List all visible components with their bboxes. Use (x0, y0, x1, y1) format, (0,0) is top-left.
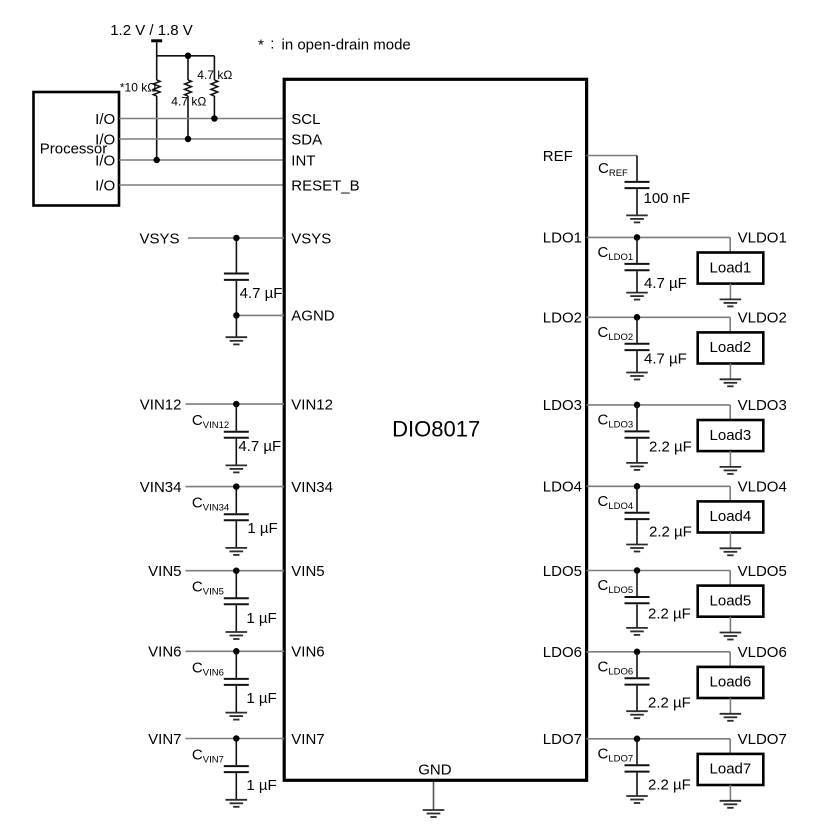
svg-text:4.7 µF: 4.7 µF (644, 275, 687, 292)
load label Load5 (710, 592, 752, 609)
wire I/O to SCL (119, 118, 284, 120)
wire CVIN12 top lead (235, 404, 237, 431)
ground CLDO6 (626, 711, 648, 718)
svg-text::: : (270, 36, 274, 53)
IC pin label VIN7 (291, 731, 324, 748)
ground Load6 (720, 714, 742, 721)
wire AGND ground lead (235, 315, 237, 336)
ground CVIN12 (226, 465, 248, 472)
svg-text:1 µF: 1 µF (246, 690, 276, 707)
svg-text:VIN12: VIN12 (291, 396, 333, 413)
capacitor CLDO4 label (598, 493, 634, 512)
ground CVIN6 (226, 713, 248, 720)
junction node R2 on SDA wire (185, 136, 192, 143)
note open-drain mode (258, 36, 411, 54)
wire CVIN12 bottom lead (235, 439, 237, 465)
svg-text:LDO7: LDO7 (543, 731, 582, 748)
IC pin label LDO6 (543, 644, 582, 661)
svg-text:2.2 µF: 2.2 µF (649, 439, 692, 456)
wire top branch to R2 R3 (157, 55, 215, 57)
processor I/O pin label (INT wire) (95, 152, 115, 169)
IC pin label LDO5 (543, 563, 582, 580)
ground CLDO3 (626, 463, 648, 470)
IC pin label LDO4 (543, 479, 582, 496)
svg-text:AGND: AGND (291, 308, 335, 325)
capacitor CVIN12 label (192, 412, 229, 431)
IC pin label VIN34 (291, 479, 333, 496)
resistor R3 4.7k leads (213, 56, 215, 119)
svg-text:VIN7: VIN7 (291, 731, 324, 748)
wire CVIN7 bottom lead (235, 773, 237, 799)
wire LDO2 to load elbow (587, 317, 731, 332)
wire CVIN5 top lead (235, 571, 237, 598)
IC pin label LDO1 (543, 230, 582, 247)
ground CLDO7 (626, 796, 648, 803)
load box Load7 (698, 754, 764, 785)
wire CLDO4 top lead (636, 486, 638, 512)
ground CVIN5 (226, 632, 248, 639)
wire CLDO3 bottom lead (636, 439, 638, 463)
wire AGND to IC (236, 314, 284, 316)
wire Load2 ground lead (729, 364, 731, 380)
net label VLDO3 (738, 397, 787, 414)
junction node R1 on INT wire (153, 157, 160, 164)
svg-text:LDO6: LDO6 (543, 644, 582, 661)
capacitor CVIN6 (224, 679, 249, 685)
wire Load5 ground lead (729, 617, 731, 633)
IC pin label RESET_B (291, 177, 359, 194)
capacitor CREF value 100 nF (644, 190, 691, 207)
svg-text:VLDO2: VLDO2 (738, 310, 787, 327)
capacitor CVIN6 value (246, 690, 276, 707)
load box Load5 (698, 586, 764, 617)
IC pin label SDA (291, 131, 322, 148)
resistor R2 label 4.7 kOhm (171, 95, 206, 109)
net label VLDO5 (738, 563, 787, 580)
capacitor CLDO6 value (648, 695, 691, 712)
load box Load6 (698, 667, 764, 698)
svg-text:2.2 µF: 2.2 µF (648, 605, 691, 622)
svg-text:LDO5: LDO5 (543, 563, 582, 580)
load label Load1 (710, 259, 752, 276)
wire CLDO3 top lead (636, 405, 638, 431)
svg-text:VIN34: VIN34 (140, 479, 182, 496)
IC U1 DIO8017 box (284, 79, 586, 780)
wire I/O to INT (119, 159, 284, 161)
svg-text:VLDO6: VLDO6 (738, 644, 787, 661)
wire CLDO7 bottom lead (636, 773, 638, 796)
wire CLDO7 top lead (636, 739, 638, 765)
wire LDO6 to load elbow (587, 652, 731, 667)
svg-text:1 µF: 1 µF (246, 777, 276, 794)
junction node VIN5 cap tap (233, 567, 240, 574)
wire LDO5 to load elbow (587, 571, 731, 586)
ground Load2 (720, 379, 742, 386)
capacitor CLDO3 label (598, 411, 634, 430)
svg-text:2.2 µF: 2.2 µF (648, 695, 691, 712)
IC pin label AGND (291, 308, 335, 325)
svg-text:RESET_B: RESET_B (291, 177, 359, 194)
IC pin label GND (418, 762, 452, 779)
junction node LDO4 cap tap (634, 483, 641, 490)
processor I/O pin label (RESET_B wire) (95, 177, 115, 194)
svg-text:INT: INT (291, 152, 315, 169)
capacitor CREF (625, 182, 650, 188)
net label VLDO4 (738, 479, 787, 496)
svg-text:4.7 µF: 4.7 µF (238, 438, 281, 455)
svg-text:VIN6: VIN6 (291, 644, 324, 661)
IC pin label INT (291, 152, 315, 169)
wire CLDO6 top lead (636, 652, 638, 678)
capacitor CVIN5 (224, 598, 249, 604)
svg-text:2.2 µF: 2.2 µF (649, 524, 692, 541)
ground Load5 (720, 633, 742, 640)
capacitor CVIN7 value (246, 777, 276, 794)
svg-text:Load5: Load5 (710, 592, 752, 609)
load box Load3 (698, 420, 764, 451)
capacitor CLDO2 label (598, 324, 634, 343)
wire VIN34 to IC (186, 486, 285, 488)
svg-text:VIN7: VIN7 (148, 731, 181, 748)
junction node VIN6 cap tap (233, 648, 240, 655)
resistor R2 4.7k leads (187, 56, 189, 139)
svg-text:I/O: I/O (95, 177, 115, 194)
capacitor CLDO7 (625, 765, 650, 771)
junction node R3 on SCL wire (211, 115, 218, 122)
load label Load6 (710, 674, 752, 691)
power rail 1.2V/1.8V label (110, 22, 193, 39)
IC pin label VIN5 (291, 563, 324, 580)
junction node LDO2 cap tap (634, 314, 641, 321)
IC pin label VSYS (291, 230, 331, 247)
wire LDO3 to load elbow (587, 405, 731, 420)
svg-text:4.7 µF: 4.7 µF (644, 350, 687, 367)
svg-text:Load7: Load7 (710, 761, 752, 778)
capacitor CLDO2 value (644, 350, 687, 367)
load box Load4 (698, 501, 764, 532)
ground GND (423, 810, 445, 817)
wire VSYS to IC (188, 237, 284, 239)
ground Load7 (720, 801, 742, 808)
capacitor CVIN5 value (246, 610, 276, 627)
wire I/O to SDA (119, 138, 284, 140)
capacitor CVIN12 (224, 432, 249, 438)
capacitor CLDO2 (625, 344, 650, 350)
capacitor CLDO5 label (598, 577, 634, 596)
resistor R3 label 4.7 kOhm (197, 68, 232, 82)
net label VIN12 (140, 396, 182, 413)
processor I/O pin label (SDA wire) (95, 131, 115, 148)
svg-text:VSYS: VSYS (139, 230, 179, 247)
svg-text:VSYS: VSYS (291, 230, 331, 247)
capacitor CVIN7 (224, 766, 249, 772)
IC name DIO8017 (392, 417, 480, 442)
junction node LDO7 cap tap (634, 736, 641, 743)
IC pin label VIN12 (291, 396, 333, 413)
capacitor CVIN34 value (247, 520, 277, 537)
svg-text:1.2 V / 1.8 V: 1.2 V / 1.8 V (110, 22, 193, 39)
svg-text:VIN34: VIN34 (291, 479, 333, 496)
IC pin label LDO2 (543, 310, 582, 327)
wire Load1 ground lead (729, 284, 731, 300)
svg-text:Load4: Load4 (710, 508, 752, 525)
net label VLDO7 (738, 731, 787, 748)
svg-text:LDO1: LDO1 (543, 230, 582, 247)
capacitor CLDO7 value (648, 776, 691, 793)
resistor R3 zigzag (211, 80, 218, 96)
svg-text:REF: REF (543, 148, 573, 165)
net label VIN34 (140, 479, 182, 496)
svg-text:100 nF: 100 nF (644, 190, 691, 207)
junction node LDO6 cap tap (634, 649, 641, 656)
capacitor VSYS 4.7uF (224, 274, 249, 280)
svg-text:VIN6: VIN6 (148, 644, 181, 661)
ground Load4 (720, 548, 742, 555)
svg-text:VLDO1: VLDO1 (738, 230, 787, 247)
wire Load3 ground lead (729, 451, 731, 467)
wire CLDO1 top lead (636, 237, 638, 263)
capacitor CVIN12 value (238, 438, 281, 455)
IC pin label REF (543, 148, 573, 165)
load box Load2 (698, 332, 764, 363)
svg-text:I/O: I/O (95, 131, 115, 148)
wire Load4 ground lead (729, 533, 731, 549)
wire CLDO4 bottom lead (636, 520, 638, 544)
wire VIN7 to IC (186, 738, 285, 740)
wire GND stub (433, 782, 435, 809)
load label Load7 (710, 761, 752, 778)
capacitor CVIN34 (224, 514, 249, 520)
svg-text:Load6: Load6 (710, 674, 752, 691)
ground CLDO1 (626, 293, 648, 300)
ground CVIN7 (226, 800, 248, 807)
svg-text:4.7 kΩ: 4.7 kΩ (197, 68, 232, 82)
wire LDO7 to load elbow (587, 739, 731, 754)
resistor R2 zigzag (185, 80, 192, 96)
junction node R2 tap on branch (185, 53, 192, 60)
svg-text:*10 kΩ: *10 kΩ (120, 80, 156, 94)
wire CREF bottom lead (636, 189, 638, 215)
capacitor CLDO6 label (598, 658, 634, 677)
svg-text:Load2: Load2 (710, 339, 752, 356)
capacitor CLDO3 value (649, 439, 692, 456)
wire CVIN34 bottom lead (235, 521, 237, 547)
svg-text:VLDO7: VLDO7 (738, 731, 787, 748)
svg-text:VLDO3: VLDO3 (738, 397, 787, 414)
svg-text:in open-drain mode: in open-drain mode (282, 37, 411, 54)
net label VIN7 (148, 731, 181, 748)
capacitor CLDO3 (625, 431, 650, 437)
capacitor VSYS value 4.7 uF (240, 285, 283, 302)
IC pin label VIN6 (291, 644, 324, 661)
net label VIN6 (148, 644, 181, 661)
wire CVIN6 top lead (235, 651, 237, 678)
net label VIN5 (148, 563, 181, 580)
wire CLDO2 top lead (636, 317, 638, 343)
wire VIN6 to IC (186, 650, 285, 652)
wire LDO1 to load elbow (587, 237, 731, 252)
capacitor CLDO5 (625, 597, 650, 603)
processor I/O pin label (SCL wire) (95, 111, 115, 128)
svg-text:VIN5: VIN5 (291, 563, 324, 580)
svg-text:4.7 µF: 4.7 µF (240, 285, 283, 302)
junction node VSYS cap tap (233, 235, 240, 242)
junction node LDO1 cap tap (634, 234, 641, 241)
load label Load4 (710, 508, 752, 525)
wire power rail down / resistor R1 leads (156, 42, 158, 160)
capacitor CREF label (598, 160, 628, 179)
svg-text:VLDO4: VLDO4 (738, 479, 787, 496)
wire CVIN7 top lead (235, 739, 237, 766)
capacitor CLDO6 (625, 678, 650, 684)
wire CLDO5 bottom lead (636, 604, 638, 627)
wire CVIN34 top lead (235, 487, 237, 514)
load label Load3 (710, 427, 752, 444)
net label VSYS (139, 230, 179, 247)
ground CLDO2 (626, 373, 648, 380)
capacitor CLDO1 (625, 264, 650, 270)
svg-text:VLDO5: VLDO5 (738, 563, 787, 580)
capacitor CVIN6 label (192, 659, 224, 678)
ground CVIN34 (226, 548, 248, 555)
ground AGND (226, 337, 248, 344)
svg-text:LDO3: LDO3 (543, 397, 582, 414)
svg-text:DIO8017: DIO8017 (392, 417, 480, 442)
net label VLDO1 (738, 230, 787, 247)
wire CLDO6 bottom lead (636, 686, 638, 711)
junction node VIN7 cap tap (233, 735, 240, 742)
svg-text:I/O: I/O (95, 152, 115, 169)
capacitor CLDO7 label (598, 745, 634, 764)
wire CVIN5 bottom lead (235, 605, 237, 631)
svg-text:1 µF: 1 µF (247, 520, 277, 537)
capacitor CVIN34 label (192, 495, 229, 514)
svg-text:VIN5: VIN5 (148, 563, 181, 580)
capacitor CLDO1 value (644, 275, 687, 292)
svg-text:Load1: Load1 (710, 259, 752, 276)
ground Load3 (720, 467, 742, 474)
svg-text:Load3: Load3 (710, 427, 752, 444)
svg-text:LDO4: LDO4 (543, 479, 582, 496)
wire VSYS cap top lead (235, 238, 237, 273)
resistor R1 label *10 kOhm (120, 80, 156, 94)
capacitor CLDO5 value (648, 605, 691, 622)
ground CLDO4 (626, 545, 648, 552)
ground CLDO5 (626, 628, 648, 635)
IC pin label SCL (291, 111, 320, 128)
wire VIN5 to IC (186, 570, 285, 572)
capacitor CLDO4 value (649, 524, 692, 541)
svg-text:I/O: I/O (95, 111, 115, 128)
IC pin label LDO3 (543, 397, 582, 414)
wire I/O to RESET_B (119, 184, 284, 186)
ground Load1 (720, 299, 742, 306)
wire Load7 ground lead (729, 785, 731, 801)
svg-text:1 µF: 1 µF (246, 610, 276, 627)
processor box (34, 92, 120, 206)
resistor R1 *10k zigzag (153, 80, 160, 96)
ground CREF (626, 215, 648, 222)
wire REF to CREF (587, 156, 638, 182)
capacitor CVIN5 label (192, 579, 224, 598)
net label VLDO2 (738, 310, 787, 327)
svg-text:4.7 kΩ: 4.7 kΩ (171, 95, 206, 109)
processor label (40, 141, 108, 158)
wire LDO4 to load elbow (587, 486, 731, 501)
junction node AGND (233, 312, 240, 319)
wire CVIN6 bottom lead (235, 686, 237, 712)
capacitor CLDO1 label (598, 244, 634, 263)
svg-text:GND: GND (418, 762, 452, 779)
junction node LDO5 cap tap (634, 567, 641, 574)
junction node LDO3 cap tap (634, 402, 641, 409)
wire VIN12 to IC (186, 403, 285, 405)
wire Load6 ground lead (729, 698, 731, 714)
load box Load1 (698, 253, 764, 284)
capacitor CVIN7 label (192, 747, 224, 766)
svg-text:SCL: SCL (291, 111, 320, 128)
IC pin label LDO7 (543, 731, 582, 748)
svg-text:SDA: SDA (291, 131, 322, 148)
wire CLDO5 top lead (636, 571, 638, 597)
load label Load2 (710, 339, 752, 356)
svg-text:VIN12: VIN12 (140, 396, 182, 413)
svg-text:2.2 µF: 2.2 µF (648, 776, 691, 793)
svg-text:*: * (258, 37, 264, 54)
wire VSYS cap bottom lead to AGND (235, 281, 237, 316)
net label VLDO6 (738, 644, 787, 661)
capacitor CLDO4 (625, 513, 650, 519)
junction node VIN12 cap tap (233, 401, 240, 408)
svg-text:LDO2: LDO2 (543, 310, 582, 327)
power rail bar (151, 39, 162, 42)
junction node VIN34 cap tap (233, 483, 240, 490)
wire CLDO2 bottom lead (636, 351, 638, 372)
wire CLDO1 bottom lead (636, 271, 638, 292)
